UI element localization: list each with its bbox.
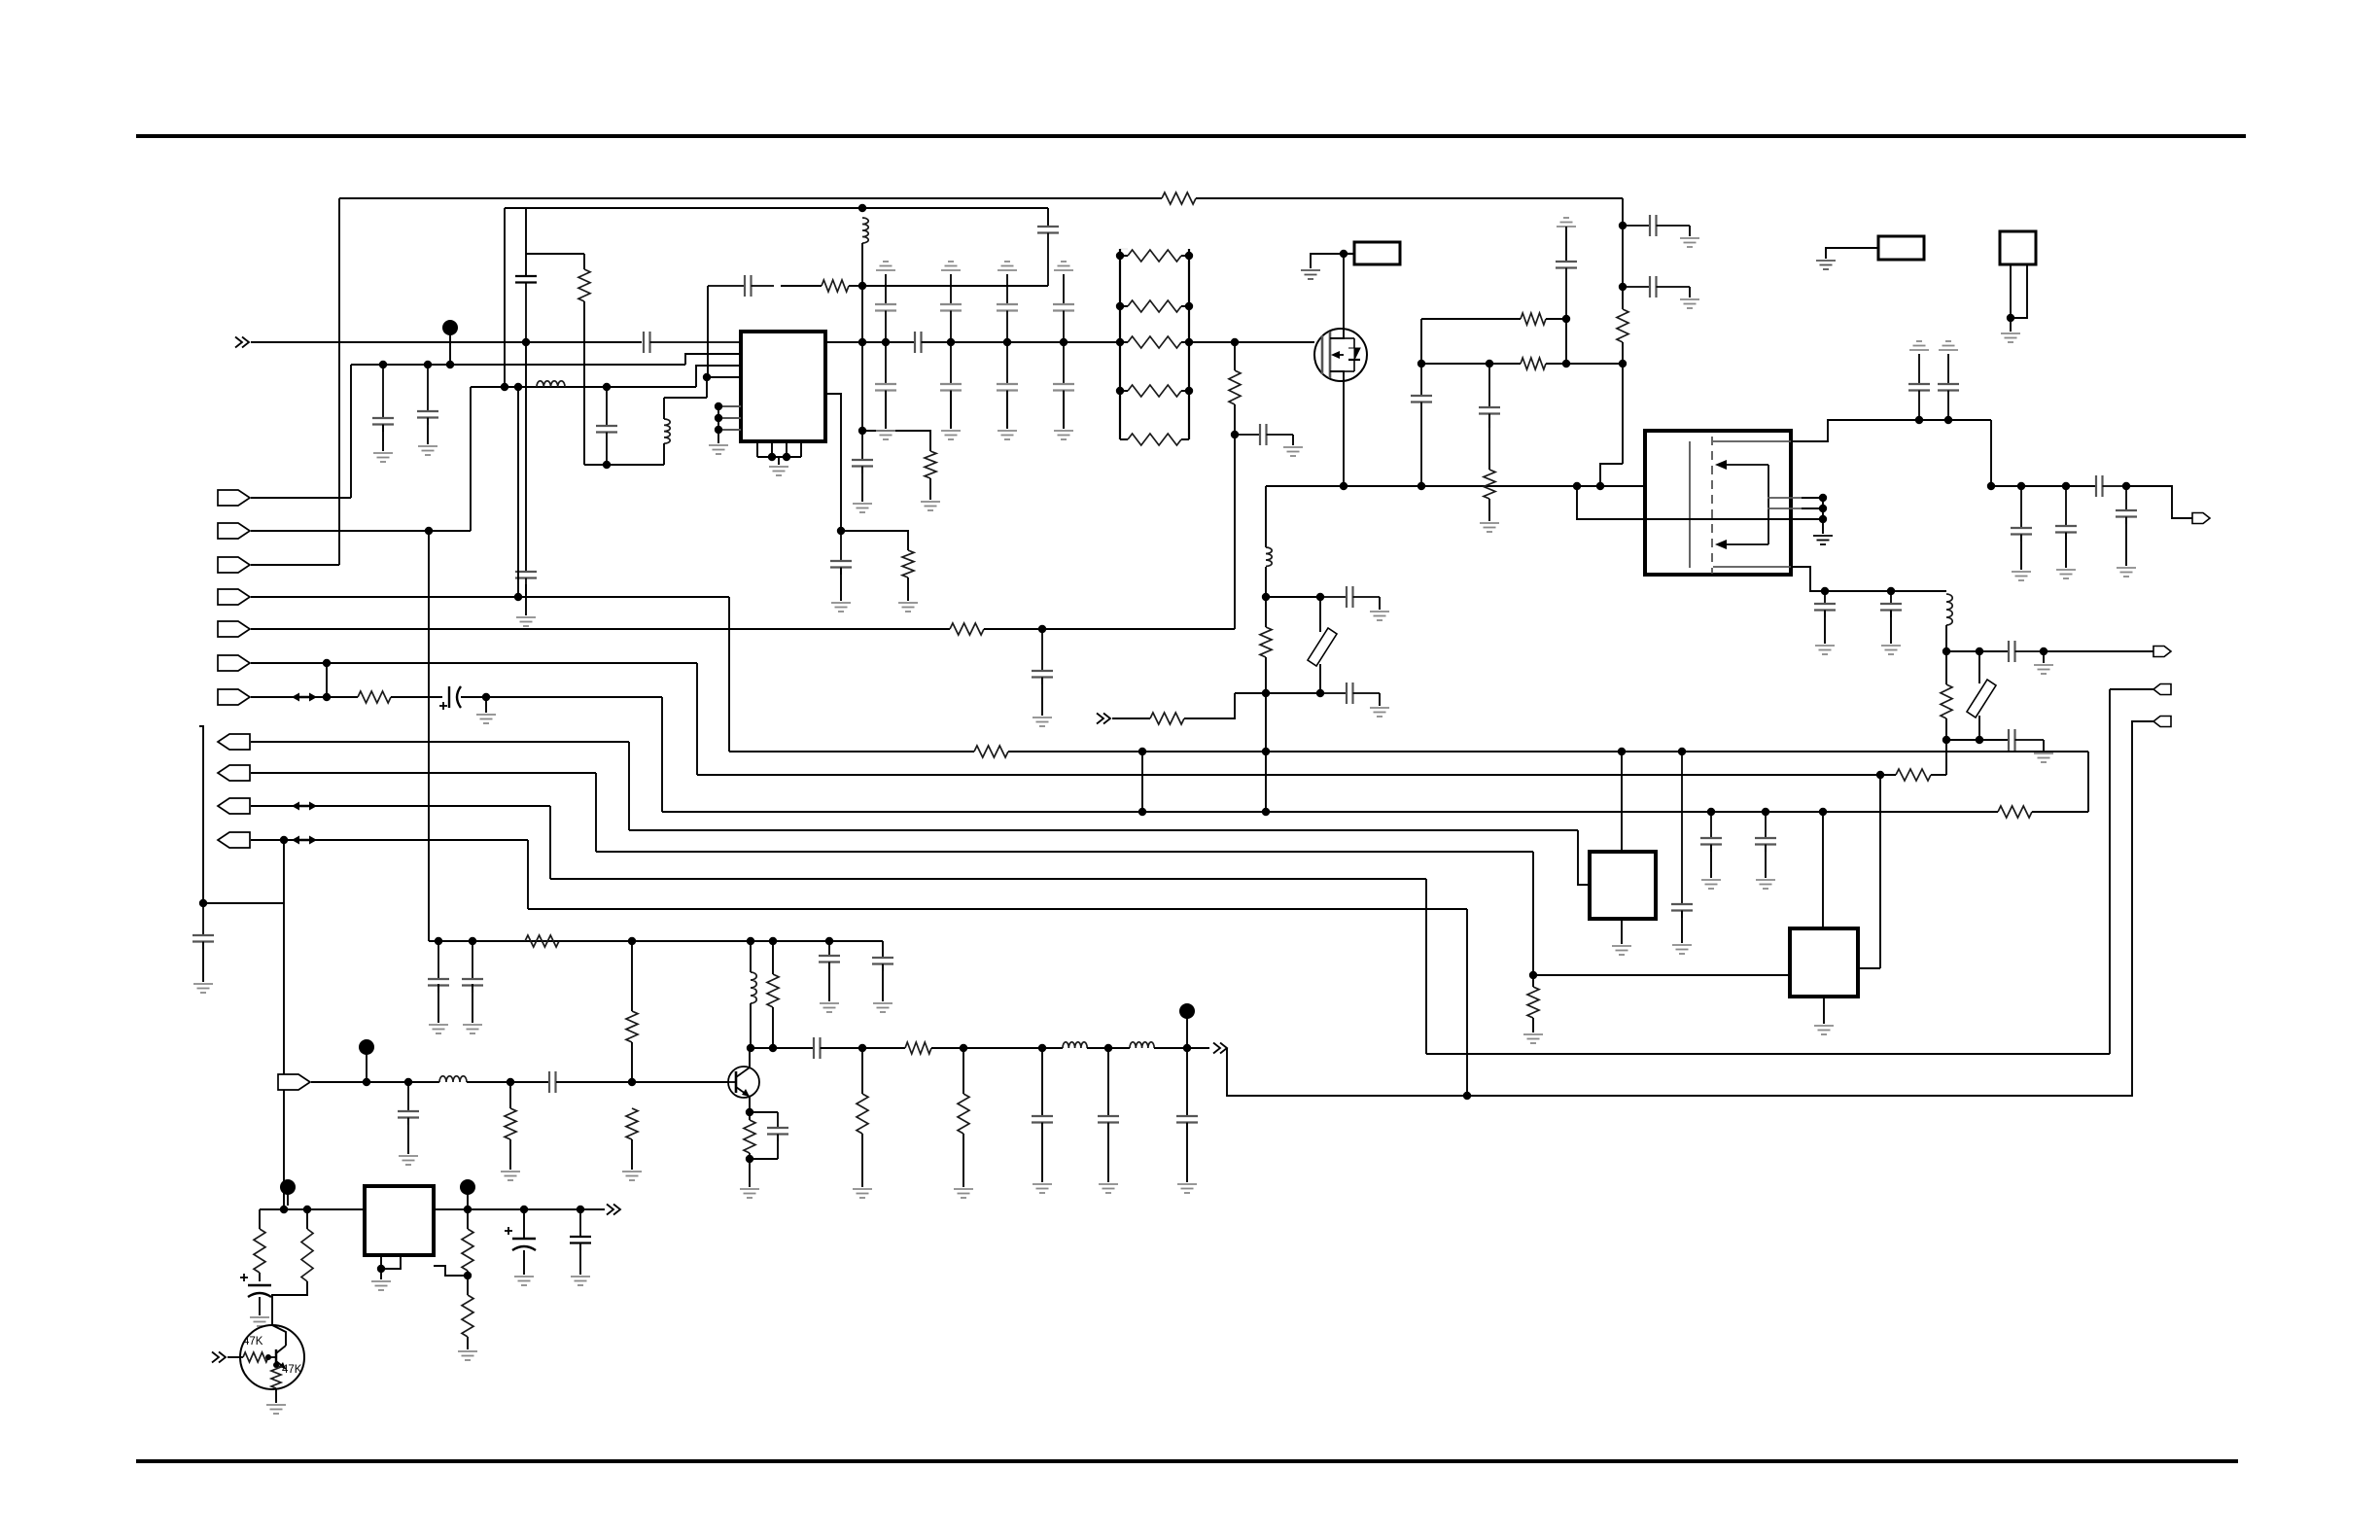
junction r647 x1072 — [1038, 625, 1046, 633]
resistor R17b r797 — [1896, 769, 1931, 781]
connector J5 (input) — [218, 621, 250, 637]
capacitor below col3 — [997, 342, 1018, 428]
wire y500 corner to coil — [1265, 486, 1267, 547]
svg-text:47K: 47K — [243, 1336, 263, 1347]
capacitor below col2 — [940, 342, 962, 428]
connector J7 (input) — [218, 689, 250, 705]
wire R24 bottom lead — [749, 1153, 751, 1187]
junction y670 x2102 — [2040, 647, 2047, 655]
wire r647 mid — [984, 628, 1235, 630]
capacitor bypass x1974 — [1908, 354, 1930, 420]
junction r773 x1668 — [1618, 748, 1626, 755]
wire U2 out up — [1791, 420, 1991, 441]
junction ladder L — [1116, 338, 1124, 346]
wire r717 to cap — [391, 696, 442, 698]
junction ladder R — [1185, 252, 1193, 260]
junction out x2048 — [1987, 482, 1995, 490]
ground below C19 — [2056, 570, 2076, 578]
wire y478 link — [584, 464, 664, 466]
junction rail x1945 — [1887, 587, 1895, 595]
wire C30 gnd lead — [1710, 845, 1712, 878]
ladder stub left R6 — [1120, 341, 1128, 343]
wire C11 gnd elbow — [1292, 435, 1294, 445]
ground below C23 — [1881, 646, 1901, 654]
wire r829 step — [549, 806, 551, 879]
wire osc 739-761 — [1945, 718, 1947, 740]
ground above col3 — [997, 262, 1017, 270]
junction r835 x1816 — [1762, 808, 1769, 816]
ground U1 bottom — [769, 467, 788, 475]
junction ladder L — [1116, 252, 1124, 260]
wire r797 — [697, 774, 1896, 776]
ground below col2 — [941, 431, 961, 439]
junction r797 x1934 — [1876, 771, 1884, 779]
ground below C38 — [399, 1156, 418, 1165]
resistor R14 disc — [1260, 627, 1272, 657]
wire C17 gnd elbow — [1689, 287, 1691, 297]
wire line y398 — [471, 386, 696, 388]
wire psu input line — [260, 1208, 365, 1210]
wire row328 — [1421, 318, 1521, 320]
resistor ladder R8 — [1128, 434, 1181, 445]
ground below C22 — [1815, 646, 1835, 654]
capacitor C37 — [872, 958, 893, 971]
net bullet A — [442, 320, 458, 365]
wire C18 gnd lead — [2020, 535, 2022, 570]
resistor R23 — [626, 1108, 638, 1139]
wire U3 top feed — [1621, 752, 1623, 852]
wire L3 top — [663, 398, 665, 419]
wire C44 gnd lead — [579, 1243, 581, 1275]
ground below C16 — [1680, 238, 1699, 247]
ground below C34 — [429, 1025, 448, 1033]
wire divider mid — [631, 1042, 633, 1082]
wire conn row y670 — [2044, 650, 2153, 652]
amp output chevron — [1213, 1043, 1227, 1054]
junction y375 x463 — [446, 361, 454, 368]
resistor R28 — [301, 1229, 313, 1281]
wire r835 right — [2032, 811, 2088, 813]
page top rule — [136, 134, 2246, 138]
wire C43 top lead — [523, 1209, 525, 1239]
transistor T1 (NPN) — [728, 1067, 759, 1098]
connector DEMOD out — [2153, 647, 2171, 657]
resistor R27 — [254, 1229, 265, 1273]
resistor R18 r835 — [1998, 806, 2032, 818]
IC U4 — [1790, 928, 1858, 997]
IC U5 (regulator) — [365, 1186, 434, 1255]
U2 internal bottom lead — [1713, 566, 1791, 568]
ground below C10a — [853, 504, 872, 512]
wire Q2 input — [227, 1356, 243, 1358]
resistor R15 mod — [1150, 713, 1184, 724]
junction out x597 — [577, 1206, 584, 1213]
resistor R3b — [902, 550, 914, 577]
junction out x539 — [520, 1206, 528, 1213]
connector J1 (input) — [218, 490, 250, 506]
wire r614 — [251, 596, 729, 598]
connector J12 (TX in) — [278, 1074, 310, 1090]
page bottom rule — [136, 1459, 2238, 1463]
wire r835 — [662, 811, 1998, 813]
capacitor C32 — [1671, 752, 1693, 918]
wire loop x1467 — [1425, 879, 1427, 1054]
junction y398 x533 — [514, 383, 522, 391]
junction y375 x394 — [379, 361, 387, 368]
junction r835 x1760 — [1707, 808, 1715, 816]
ground below C21 — [2117, 568, 2136, 577]
wire var2 bottom lead — [1319, 664, 1321, 693]
wire U2 stub rail — [1822, 498, 1824, 534]
junction U5 gnd — [377, 1265, 385, 1273]
wire base line 2 — [467, 1081, 549, 1083]
ground below C26 — [1370, 612, 1389, 620]
connector K1 (right) — [2153, 684, 2171, 695]
capacitor C29 electrolytic — [439, 686, 461, 710]
capacitor C at x1140 — [1098, 1116, 1119, 1130]
wire Q2 collector — [272, 1325, 286, 1346]
net bullet D — [280, 1179, 296, 1206]
wire step pin2 — [685, 354, 741, 365]
junction base x650 — [628, 1078, 636, 1086]
resistor R25 — [857, 1094, 868, 1134]
IC U2 (balanced mixer block) — [1645, 431, 1791, 575]
ground below C31 — [1756, 880, 1775, 889]
wire C38 gnd lead — [407, 1118, 409, 1154]
ground below cap x1072 — [1032, 1184, 1052, 1193]
ladder stub right R5 — [1181, 305, 1189, 307]
wire R2 to C7 — [781, 285, 822, 287]
connector J2 (input) — [218, 523, 250, 539]
wire y409 to x727 — [664, 397, 707, 399]
wire U5 gnd lead — [380, 1269, 382, 1279]
wire out line d — [1154, 1047, 1209, 1049]
RF input chevron — [235, 337, 249, 348]
ladder stub right R4 — [1181, 255, 1189, 257]
junction ladder L — [1116, 302, 1124, 310]
ground below C27 — [1370, 708, 1389, 717]
capacitor above col1 — [875, 274, 896, 342]
wire C29 gnd branch — [485, 697, 487, 713]
wire U1 pin stub c — [718, 429, 741, 431]
ground above col4 — [1054, 262, 1073, 270]
capacitor C38 — [398, 1082, 419, 1125]
wire line y375 — [351, 364, 685, 366]
wire C40 bottom lead — [777, 1135, 779, 1159]
ground below C28 — [1032, 717, 1052, 726]
wire C26 elbow — [1379, 597, 1381, 610]
wire R27 top lead — [259, 1209, 261, 1229]
wire r864 — [251, 839, 528, 841]
resistor R25b series — [905, 1042, 931, 1054]
junction out x2079 — [2017, 482, 2025, 490]
resistor R2 y294 — [822, 280, 849, 292]
resistor R30 — [462, 1295, 473, 1337]
wire R9 to dot — [1234, 404, 1236, 435]
wire C35 gnd lead — [472, 984, 473, 1023]
ladder stub left R7 — [1120, 390, 1128, 392]
wire x1669 elbow — [1600, 464, 1623, 486]
junction x1462 y374 — [1417, 360, 1425, 367]
wire x533 down — [517, 387, 519, 597]
wire x349 up — [338, 198, 340, 565]
connector J11 (output) — [218, 832, 250, 848]
resistor R31 47K — [243, 1352, 268, 1362]
capacitor C13 x1532 — [1479, 364, 1500, 428]
wire U1 bottom pin 2 — [771, 441, 773, 457]
junction bottom tie b — [783, 453, 790, 461]
wire tank vertical x541 upper — [525, 208, 527, 276]
wire C13 to R13b — [1488, 414, 1490, 470]
ground below C5 — [373, 453, 393, 462]
wire x1302 713-773 none — [1265, 693, 1267, 696]
wire R10 to x1611 — [1546, 318, 1566, 320]
junction r835 x1302 — [1262, 808, 1270, 816]
resistor R17 r717 — [358, 691, 391, 703]
junction disc y614 — [1262, 593, 1270, 601]
wire out line a — [821, 1047, 905, 1049]
wire Q2 gnd lead — [275, 1388, 277, 1403]
Q1 channel bar — [1329, 332, 1332, 378]
capacitor C11 series — [1235, 424, 1293, 445]
wire C24 elbow — [2043, 651, 2045, 663]
junction U2 stub a — [1819, 494, 1827, 502]
ground below R22 — [501, 1172, 520, 1180]
wire Y1 gnd lead — [2010, 318, 2012, 332]
label box TP1 — [1354, 242, 1400, 264]
IC U1 (RF IC) — [741, 332, 825, 441]
ground below col1 — [876, 431, 895, 439]
connector RF output — [2192, 513, 2210, 524]
wire row374 b — [1566, 363, 1623, 365]
wire r904 — [550, 878, 1426, 880]
ground below C35 — [463, 1025, 482, 1033]
ground above bypass x2004 — [1939, 341, 1958, 350]
junction tie713 x1302 — [1262, 689, 1270, 697]
wire out loop — [1227, 721, 2153, 1096]
wire L6 top — [750, 941, 752, 972]
junction bottom tie a — [768, 453, 776, 461]
wire base line 3 — [556, 1081, 728, 1083]
resistor ladder R4 — [1128, 250, 1181, 262]
wire y294 to cap — [849, 285, 862, 287]
ground below R3b — [898, 603, 918, 612]
wire drain to box — [1344, 253, 1354, 255]
resistor R19 r773 — [974, 746, 1008, 757]
resistor R3a — [925, 451, 936, 478]
junction r835 x1175 — [1138, 808, 1146, 816]
wire C10b gnd lead — [840, 568, 842, 601]
wire step pin3 — [696, 366, 741, 387]
capacitor C14 x1611 — [1556, 262, 1577, 319]
wire line-B y214 — [505, 207, 1048, 209]
wire x727 up to dot — [706, 377, 708, 398]
wire R27 to cap — [259, 1273, 261, 1281]
wire x1669 lower — [1622, 342, 1624, 464]
ground below U5 — [371, 1281, 391, 1290]
wire RF line caps row — [922, 341, 1120, 343]
ladder stub left R4 — [1120, 255, 1128, 257]
ground below R25 — [853, 1189, 872, 1198]
wire r795 — [251, 772, 596, 774]
wire R26 gnd lead — [962, 1134, 964, 1187]
junction y500 x1382 — [1340, 482, 1347, 490]
junction bypass a — [1915, 416, 1923, 424]
inductor L4 x1302 — [1266, 547, 1272, 567]
ladder top tie — [1120, 248, 1128, 250]
junction psu x292 — [280, 1206, 288, 1213]
ground below C44 — [571, 1277, 590, 1285]
junction r717 x500 — [482, 693, 490, 701]
resistor R23a divider — [626, 1011, 638, 1042]
junction out x481 — [464, 1206, 472, 1213]
wire R3a gnd lead — [929, 478, 931, 500]
wire r763 step — [628, 742, 630, 830]
junction y398 x624 — [603, 383, 611, 391]
wire R22 gnd lead — [509, 1139, 511, 1170]
junction bias x650 — [628, 937, 636, 945]
wire x1221 gnd lead — [1186, 1123, 1188, 1182]
junction x1611 y328 — [1562, 315, 1570, 323]
net bullet E — [460, 1179, 475, 1206]
bidirectional arrow r829 — [292, 802, 317, 811]
junction y398 x517 — [501, 383, 508, 391]
capacitor C6 x440 — [417, 365, 438, 425]
capacitor C35 — [462, 941, 483, 993]
wire R1 top lead — [583, 254, 585, 269]
wire net1 tie — [862, 431, 930, 451]
wire RF out of IC1 — [825, 341, 915, 343]
wire L3 bottom — [663, 443, 665, 465]
capacitor C21 — [2116, 486, 2137, 524]
wire R29 top lead — [467, 1209, 469, 1229]
wire L2 to junction — [861, 243, 863, 286]
U2 internal winding bar — [1689, 441, 1691, 568]
wire y294 link — [862, 285, 1048, 287]
capacitor C40 emitter — [767, 1112, 788, 1141]
wire C33 gnd lead — [202, 942, 204, 982]
junction r864 x292 — [280, 836, 288, 844]
ladder stub left R5 — [1120, 305, 1128, 307]
U2 internal dashed core — [1711, 437, 1713, 574]
wire x1669 down — [1622, 198, 1624, 309]
ground below cap x1221 — [1177, 1184, 1197, 1193]
wire r876 — [596, 851, 1533, 853]
junction ladder R — [1185, 338, 1193, 346]
wire var2 top lead — [1319, 597, 1321, 632]
inductor L3 x683 — [664, 419, 670, 443]
wire ladder to gate — [1189, 341, 1314, 343]
junction r773 x1302 — [1262, 748, 1270, 755]
ground below C42 — [250, 1317, 269, 1326]
capacitor bypass x2004 — [1938, 354, 1959, 420]
ground U1 left pins — [709, 445, 728, 454]
ground below R26 — [954, 1189, 973, 1198]
wire C22 gnd lead — [1824, 611, 1826, 644]
resistor R13b — [1484, 470, 1495, 499]
junction out x1072 — [1038, 1044, 1046, 1052]
wire collector line — [750, 1047, 814, 1049]
junction out x991 — [960, 1044, 967, 1052]
ground below R30 — [458, 1351, 477, 1360]
wire r854 to U3 — [1578, 830, 1590, 885]
wire x519 up — [504, 208, 506, 387]
U2 internal top lead — [1713, 440, 1791, 442]
wire r581 — [251, 564, 339, 566]
wire TP2 gnd lead — [1826, 248, 1878, 259]
capacitor C3 to ground — [515, 572, 537, 595]
junction coll x795 — [769, 1044, 777, 1052]
resistor R29 — [462, 1229, 473, 1271]
junction ladder R — [1185, 302, 1193, 310]
junction r717 x336 — [323, 693, 331, 701]
wire C34 gnd lead — [437, 984, 439, 1023]
wire C27 elbow — [1379, 693, 1381, 706]
junction RF/tank — [522, 338, 530, 346]
ground below U4 — [1814, 1026, 1834, 1034]
capacitor C2 tank series — [515, 276, 537, 342]
wire var bottom lead — [1978, 716, 1980, 740]
junction emitter top — [746, 1108, 753, 1116]
wire emitter tie bottom — [750, 1158, 778, 1160]
junction psu x316 — [303, 1206, 311, 1213]
inductor L9 — [1130, 1042, 1154, 1048]
ground below R18b — [1523, 1034, 1543, 1043]
capacitor C41 series — [814, 1037, 862, 1059]
wire r647 — [251, 628, 950, 630]
wire U1 bottom pin 4 — [800, 441, 802, 457]
ground below C24 — [2034, 665, 2053, 674]
junction bypass b — [1944, 416, 1952, 424]
capacitor C7 series y294 — [708, 275, 774, 297]
junction x887 y294 — [858, 282, 866, 290]
ground above col1 — [876, 262, 895, 270]
wire x1140 down — [1107, 1048, 1109, 1116]
inductor L2 x887 — [862, 218, 868, 243]
wire C25 elbow — [2043, 740, 2045, 752]
resistor R18b — [1527, 987, 1539, 1018]
junction stub a — [715, 402, 722, 410]
wire x2148 up — [2087, 752, 2089, 812]
connector J9 (output) — [218, 765, 250, 781]
capacitor C43 electrolytic — [505, 1227, 536, 1250]
bidirectional arrow r864 — [292, 836, 317, 845]
wire tank top link — [526, 253, 584, 255]
inductor L8 — [1063, 1042, 1087, 1048]
wire R18b top — [1532, 975, 1534, 987]
connector J10 (output) — [218, 798, 250, 814]
wire r864 step — [527, 840, 529, 909]
junction x887 y214 — [858, 204, 866, 212]
capacitor C44 — [570, 1209, 591, 1250]
IC U3 — [1590, 852, 1656, 919]
wire mod input — [1112, 717, 1150, 719]
junction net2 — [837, 527, 845, 535]
wire C36 gnd lead — [828, 962, 830, 1001]
wire x541 below RF — [525, 342, 527, 572]
wire x1509 down — [1466, 909, 1468, 1096]
capacitor C34 — [428, 941, 449, 993]
wire r797 end — [1931, 774, 1946, 776]
wire r829 — [251, 805, 550, 807]
wire out to conn — [2126, 486, 2192, 518]
wire x209 L — [199, 726, 203, 903]
Q1 body diode — [1344, 338, 1360, 371]
junction stub b — [715, 414, 722, 422]
component Y1 (crystal box) — [2000, 231, 2036, 264]
capacitor C42 electrolytic — [240, 1274, 271, 1297]
capacitor C31 — [1755, 812, 1776, 852]
